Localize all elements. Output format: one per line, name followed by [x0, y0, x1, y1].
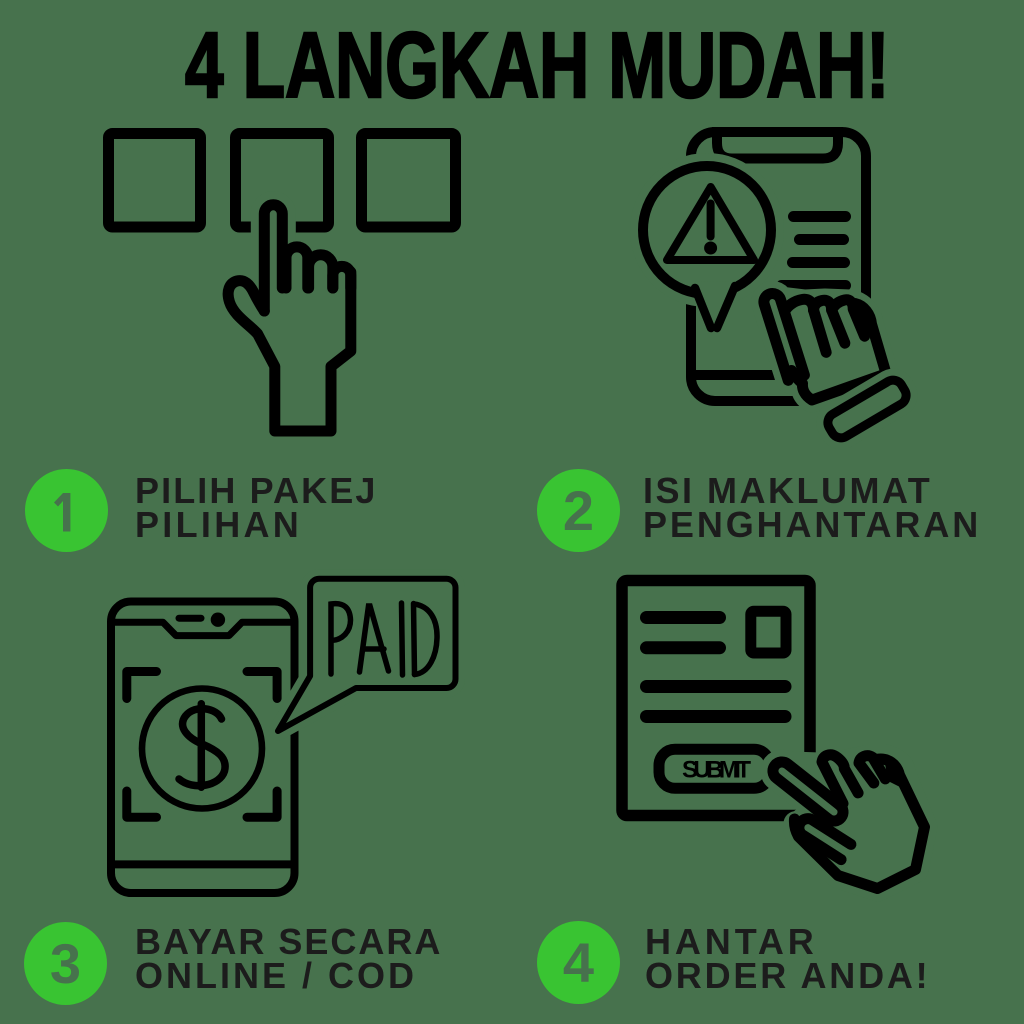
svg-text:SUBMIT: SUBMIT [682, 757, 751, 784]
